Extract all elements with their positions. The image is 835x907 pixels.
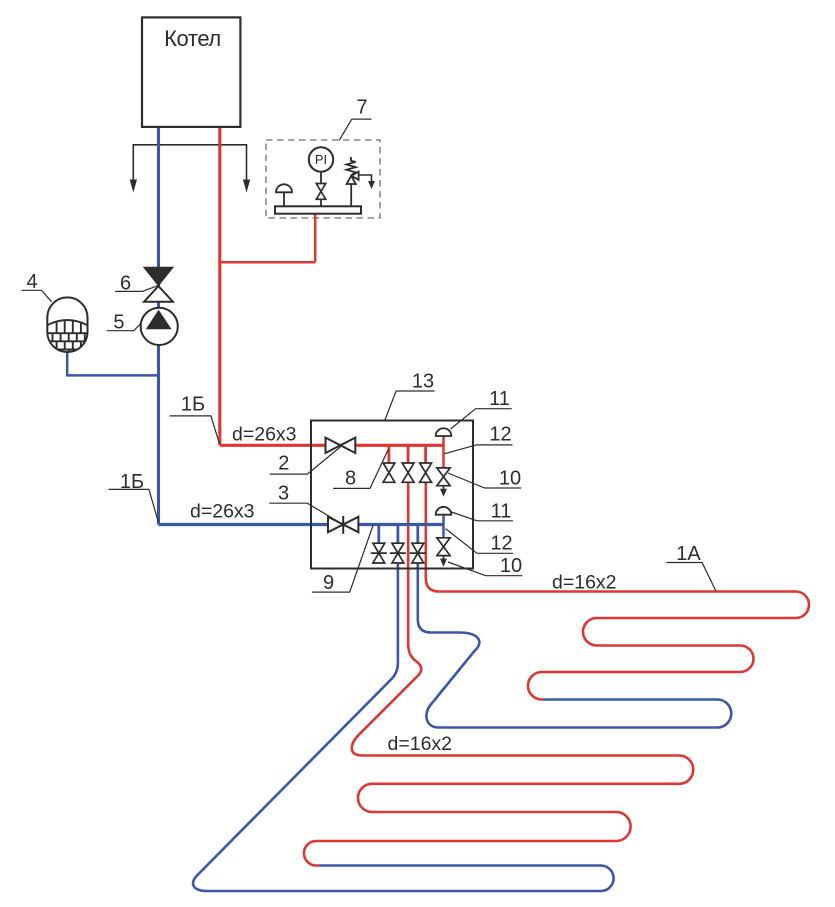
svg-text:8: 8	[345, 468, 356, 490]
svg-text:Котел: Котел	[164, 26, 221, 51]
svg-text:11: 11	[489, 388, 510, 410]
svg-text:d=26x3: d=26x3	[190, 500, 255, 522]
svg-text:10: 10	[499, 468, 521, 490]
svg-text:d=16x2: d=16x2	[388, 733, 453, 755]
svg-text:4: 4	[26, 271, 37, 293]
svg-text:2: 2	[278, 452, 289, 474]
svg-text:5: 5	[113, 312, 124, 334]
svg-text:1Б: 1Б	[181, 394, 205, 416]
svg-text:d=16x2: d=16x2	[552, 572, 617, 594]
svg-text:3: 3	[278, 482, 289, 504]
svg-text:9: 9	[323, 572, 334, 594]
svg-text:11: 11	[491, 501, 512, 523]
svg-text:d=26x3: d=26x3	[232, 424, 297, 446]
svg-text:PI: PI	[315, 152, 327, 167]
svg-text:1Б: 1Б	[120, 471, 144, 493]
svg-text:13: 13	[412, 371, 434, 393]
svg-text:12: 12	[489, 424, 511, 446]
svg-text:10: 10	[500, 555, 522, 577]
svg-text:6: 6	[120, 273, 131, 295]
svg-text:1А: 1А	[676, 543, 701, 565]
svg-text:7: 7	[356, 97, 367, 119]
svg-text:12: 12	[490, 533, 512, 555]
